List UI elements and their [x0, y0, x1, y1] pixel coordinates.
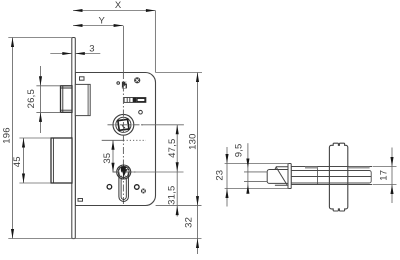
euro cylinder [117, 165, 131, 201]
26,5 arrows (outside) [39, 76, 42, 86]
dimensions right view [225, 143, 397, 206]
ext line top (23/9,5) [225, 163, 290, 165]
lock case body [75, 73, 155, 206]
45 arrows [22, 138, 25, 148]
dim 196 ext top [8, 37, 72, 39]
dim 35 line [112, 140, 114, 172]
3 arrows [62, 52, 72, 55]
latch guide plate [288, 164, 291, 189]
dim 9,5 line [247, 143, 249, 191]
ext line bottom (23) [225, 188, 290, 190]
196 arrows [11, 38, 14, 48]
cylinder keyway (dark) [121, 166, 128, 177]
dim 45 line [23, 138, 25, 183]
35 reference dotted line [102, 139, 146, 141]
circle right of cylinder [135, 185, 140, 190]
dim 3 lines [50, 53, 72, 55]
23 arrows (outside) [225, 154, 228, 164]
dim 17 ext lines [373, 166, 397, 168]
grey pads on case bar [305, 167, 370, 169]
svg-text:X: X [115, 0, 122, 11]
dim X line [73, 10, 155, 12]
case bar (top view) [291, 167, 372, 185]
cylinder ext line [132, 171, 184, 173]
faceplate [72, 38, 76, 239]
svg-text:3: 3 [89, 43, 94, 54]
small rect top-left of case [80, 77, 85, 80]
latch bolt (top view, beveled) [267, 167, 288, 186]
Y arrows [73, 24, 83, 27]
small circle above follower right [139, 110, 143, 114]
ext line 9,5 lower [244, 180, 267, 182]
case bottom ext line [156, 205, 202, 207]
svg-text:32: 32 [184, 217, 195, 228]
screw top [134, 77, 140, 83]
dim 196 / 32 ext bottom [8, 238, 201, 240]
latch bolt tail [75, 84, 90, 115]
labels main view [2, 0, 199, 228]
dim 196 line [12, 38, 14, 239]
svg-text:17: 17 [378, 170, 389, 181]
32 bottom arrow (outside) [196, 239, 199, 249]
dim 17 line [391, 148, 393, 204]
svg-text:31,5: 31,5 [167, 186, 178, 205]
svg-text:47,5: 47,5 [167, 139, 178, 158]
35 arrows [111, 140, 114, 150]
dark component on centerline top [122, 82, 127, 89]
dim 26,5 line [40, 66, 42, 133]
deadbolt [51, 138, 72, 183]
follower ext line [141, 124, 184, 126]
dim 130 / 32 line [197, 73, 199, 255]
slot mechanism [124, 98, 146, 103]
follower centerlines [108, 26, 145, 206]
screw bottom-right [141, 189, 146, 194]
47,5 arrows [176, 125, 179, 135]
faceplate (top view, tall bar with screw tabs) [329, 143, 347, 211]
9,5 arrows (outside) [246, 159, 249, 169]
dim 26,5 ext lines [36, 85, 60, 87]
svg-text:35: 35 [102, 153, 113, 164]
cylinder centerline [113, 171, 136, 173]
small circle near top screw [117, 82, 120, 85]
follower (square spindle hub) [113, 114, 134, 135]
svg-text:9,5: 9,5 [234, 143, 245, 157]
dim Y line [73, 25, 123, 27]
svg-text:130: 130 [187, 133, 198, 149]
31,5 bottom arrow (outside) [176, 206, 179, 216]
dim 23 line [226, 147, 228, 207]
svg-text:26,5: 26,5 [26, 89, 37, 108]
ext line 9,5 upper [244, 171, 268, 173]
svg-text:196: 196 [2, 127, 13, 143]
17 arrows (outside) [390, 157, 393, 167]
circle left of cylinder [107, 185, 112, 190]
dim X extension right [154, 11, 156, 73]
130 arrows [196, 73, 199, 83]
svg-text:Y: Y [99, 16, 106, 27]
svg-text:23: 23 [215, 170, 226, 181]
dim 47,5 / 31,5 line [176, 125, 178, 217]
X arrows [73, 9, 83, 12]
svg-text:45: 45 [12, 156, 23, 167]
small rect bottom-left of case [78, 199, 83, 202]
case top ext line [156, 72, 202, 74]
arrows main view [11, 9, 199, 248]
latch bolt head [61, 86, 73, 113]
dim 45 ext lines [19, 137, 51, 139]
